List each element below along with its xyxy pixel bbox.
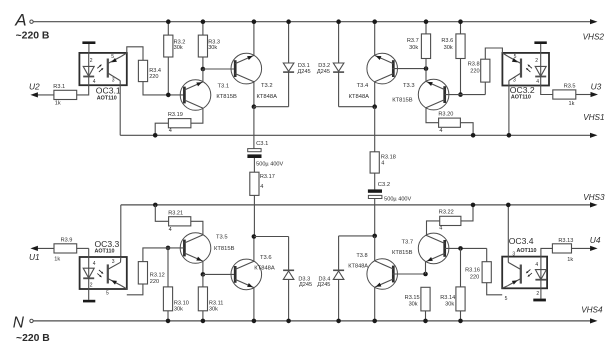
wire node to T3.2 base [203,68,235,70]
svg-text:4: 4 [260,184,263,190]
label T3.7 [402,240,414,246]
wire OC3.2 pin3 to VHS1 [507,86,512,138]
light arrows OC3.1 [97,64,103,71]
svg-text:~220 В: ~220 В [16,30,50,41]
wire C3.1 to R3.17 [253,158,255,172]
svg-text:1k: 1k [55,101,61,107]
svg-text:4: 4 [169,227,172,233]
svg-text:R3.14: R3.14 [440,295,455,301]
svg-text:Т3.8: Т3.8 [356,253,367,259]
svg-text:Т3.2: Т3.2 [261,83,273,89]
label T3.4 [357,83,369,89]
resistor R3.16 [465,262,491,283]
svg-text:R3.16: R3.16 [465,268,480,274]
wire T3.1 emitter to R3.19 [191,108,203,123]
svg-text:4: 4 [439,128,442,134]
wire T3.4 emitter down [372,82,377,109]
resistor R3.8 [468,59,490,82]
svg-text:Т3.3: Т3.3 [403,83,415,89]
svg-text:R3.20: R3.20 [438,112,453,118]
svg-text:5: 5 [505,296,508,302]
wire D3.1 to T3.2 node [254,106,289,108]
resistor R3.19 [168,112,191,134]
wire T3.3 emitter to R3.20 [426,108,439,123]
LED of OC3.4 [535,257,546,289]
svg-text:30k: 30k [174,45,183,51]
wire R3.7 bottom [425,59,427,69]
wire T3.5 base node [166,246,185,251]
wire R3.21 from VHS3 [153,203,169,222]
wire rail A/VHS2 [33,19,597,24]
svg-text:U1: U1 [29,252,40,262]
wire R3.12 to OC3.3 pin5 [127,284,143,295]
label OC3.2 [510,85,535,95]
wire T3.2 collector to rail A [252,19,257,55]
svg-text:220: 220 [470,274,479,280]
svg-text:1k: 1k [567,257,573,263]
pin 3 OC3.2 [513,78,516,84]
svg-text:АОТ110: АОТ110 [97,96,117,102]
wire R3.7 top to rail A [424,19,429,34]
svg-text:2: 2 [536,291,539,297]
wire T3.8 emitter to rail N [372,287,377,323]
wire D3.2 to T3.4 node [339,106,375,108]
pin 2 OC3.4 [536,291,539,297]
svg-text:4: 4 [169,128,172,134]
svg-text:КТ848А: КТ848А [257,94,278,100]
svg-text:R3.21: R3.21 [168,210,183,216]
light arrows OC3.2 [526,64,532,71]
svg-text:220: 220 [150,279,159,285]
resistor R3.4 [138,60,161,81]
resistor R3.22 [439,210,461,232]
svg-text:R3.5: R3.5 [564,83,576,89]
wire LED OC3.4 to R3.13 [541,248,553,256]
wire T3.2 emitter to C3.1 [253,107,255,149]
svg-text:ОС3.3: ОС3.3 [95,239,120,249]
label U3 [591,82,602,92]
wire R3.16 to OC3.4 pin5 [487,283,503,295]
wire R3.2 bottom to T3.1 base [166,57,171,97]
wire LED OC3.3 to R3.9 [77,248,89,257]
wire T3.8 base wire [392,272,427,277]
wire R3.12 to base node [143,248,168,262]
label U1 [29,252,40,262]
wire T3.3 base wire [445,94,486,96]
svg-text:30k: 30k [209,306,218,312]
wire T3.4 node to R3.18 [374,107,376,152]
LED of OC3.1 [83,53,94,85]
pin 3 OC3.3 [112,259,115,265]
wire OC3.1 pin3 to VHS1 [119,85,121,135]
label VHS2 [583,33,605,42]
optocoupler U-OC3.1 box [79,53,126,85]
wire R3.6 bottom to T3.3 base [458,59,463,97]
svg-text:КТ848А: КТ848А [348,264,368,270]
pin 3 OC3.4 [512,251,515,257]
LED of OC3.3 [83,257,94,289]
wire OC3.2 pin5 to R3.8 [485,48,502,59]
label KT815B (T3.5) [214,246,235,252]
svg-text:4: 4 [535,262,538,268]
svg-text:A: A [14,11,26,30]
svg-text:220: 220 [149,74,158,80]
svg-text:C3.1: C3.1 [256,141,268,147]
label OC3.4 [509,236,534,246]
svg-text:30k: 30k [409,45,418,51]
label D3.1 [298,63,311,75]
wire T3.3 collector [425,69,427,82]
svg-text:4: 4 [536,79,539,85]
svg-text:КТ815В: КТ815В [392,250,413,256]
svg-text:2: 2 [90,58,93,64]
svg-text:R3.13: R3.13 [558,238,573,244]
svg-text:КТ848А: КТ848А [254,266,275,272]
label T3.3 [403,83,415,89]
wire T3.6 base wire [203,273,235,275]
svg-text:4: 4 [93,79,96,85]
resistor R3.20 [438,112,460,134]
wire T3.5 emitter down [201,261,206,276]
wire T3.4 collector to rail A [372,19,377,55]
svg-text:500µ 400V: 500µ 400V [384,196,411,202]
svg-text:Д245: Д245 [317,69,330,75]
wire rail VHS1 [120,133,597,138]
svg-text:Д245: Д245 [317,282,330,288]
svg-text:C3.2: C3.2 [378,182,390,188]
light arrows OC3.4 [526,269,532,276]
pin 2 OC3.3 [90,282,93,288]
label T3.8 [356,253,367,259]
wire R3.3 to T3.2 base node [201,57,206,71]
svg-text:3: 3 [512,251,515,257]
label KT815B (T3.3) [392,98,413,104]
svg-text:2: 2 [90,282,93,288]
svg-text:Д245: Д245 [298,69,311,75]
svg-text:~220 В: ~220 В [16,333,50,344]
svg-text:30k: 30k [409,302,418,308]
svg-text:VHS1: VHS1 [583,113,604,122]
wire R3.3 top to rail A [201,19,206,35]
label AOT110 (OC3.3) [95,249,115,255]
pin 5 OC3.3 [106,290,109,296]
wire R3.10 bottom to rail N [166,311,171,323]
pin 4 OC3.2 [536,79,539,85]
svg-text:ОС3.1: ОС3.1 [96,86,121,96]
diode D3.1 [283,19,294,106]
wire OC3.4 pin3 to VHS3 [506,203,511,257]
label T3.1 [218,83,230,89]
svg-text:R3.6: R3.6 [441,38,453,44]
label D3.2 [317,63,330,75]
wire LED OC3.1 to R3.1 [77,85,89,95]
resistor R3.2 [164,35,186,57]
svg-text:3: 3 [112,259,115,265]
mains bar below OC3.3 [83,289,95,302]
label D3.4 [317,276,330,288]
pin 3 OC3.1 [112,78,115,84]
resistor R3.10 [163,287,188,313]
wire R3.11 top [202,274,204,287]
diode D3.4 [333,236,344,323]
mains bar above OC3.2 [534,41,546,53]
svg-text:N: N [13,314,25,331]
wire R3.15 bottom to rail N [423,311,428,323]
mains bar below OC3.4 [533,288,546,301]
svg-text:Т3.1: Т3.1 [218,83,230,89]
svg-text:500µ 400V: 500µ 400V [256,161,283,167]
svg-text:АОТ110: АОТ110 [517,248,537,254]
pin 4 OC3.1 [93,79,96,85]
resistor R3.1 [53,84,76,107]
svg-text:30k: 30k [208,45,217,51]
label KT848A (T3.4) [349,94,370,100]
resistor R3.17 [250,172,275,195]
svg-text:VHS2: VHS2 [583,33,605,42]
svg-text:VHS4: VHS4 [581,306,603,315]
transistor T3.6 [231,259,262,290]
wire C3.2 to VHS3 [374,199,376,205]
svg-text:1k: 1k [54,257,60,263]
resistor R3.9 [54,238,77,263]
wire T3.7 base wire [445,246,487,251]
wire R3.13 to U4 arrow [572,246,598,251]
wire R3.14 bottom to rail N [458,311,463,323]
wire R3.22 to VHS3 [461,203,475,221]
pin 4 OC3.4 [535,262,538,268]
wire R3.10 top [167,248,169,287]
phototransistor of OC3.1 [108,53,127,85]
label KT815B (T3.7) [392,250,413,256]
svg-text:R3.1: R3.1 [53,84,65,90]
pin 5 OC3.1 [111,54,114,60]
svg-text:КТ815В: КТ815В [216,94,237,100]
wire T3.7 collector to R3.22 [427,221,440,235]
capacitor C3.2 [368,182,412,202]
label T3.6 [260,255,272,261]
wire R3.14 top [460,248,462,287]
resistor R3.21 [168,210,191,233]
svg-text:КТ815В: КТ815В [214,246,235,252]
pin 2 OC3.1 [90,58,93,64]
svg-text:Т3.6: Т3.6 [260,255,272,261]
label KT815B (T3.1) [216,94,237,100]
wire R3.6 top to rail A [458,19,463,34]
svg-text:АОТ110: АОТ110 [95,249,115,255]
label VHS1 [583,113,604,122]
label U2 [29,82,40,92]
transistor T3.5 [180,233,211,264]
wire T3.1 collector [202,69,204,82]
svg-text:30k: 30k [174,306,183,312]
label AOT110 (OC3.2) [511,94,531,100]
resistor R3.13 [552,238,573,263]
wire T3.6 collector up [252,234,257,261]
svg-text:R3.15: R3.15 [405,295,420,301]
resistor R3.12 [138,262,164,285]
node A terminal [14,11,33,30]
phototransistor of OC3.2 [502,53,521,86]
label OC3.3 [95,239,120,249]
svg-text:R3.22: R3.22 [439,210,454,216]
svg-text:R3.4: R3.4 [149,68,161,74]
node N terminal [13,314,33,331]
wire T3.4 base wire [392,66,428,71]
label KT848A (T3.6) [254,266,275,272]
label U4 [590,235,601,245]
resistor R3.11 [198,287,223,313]
svg-text:U3: U3 [591,82,602,92]
LED of OC3.2 [535,53,546,86]
phototransistor of OC3.3 [108,257,127,289]
resistor R3.14 [440,287,465,311]
svg-text:3: 3 [513,78,516,84]
wire R3.21 to T3.5 collector [191,221,203,234]
svg-text:R3.19: R3.19 [168,112,183,118]
svg-text:4: 4 [439,226,442,232]
pin 4 OC3.3 [93,261,96,267]
label OC3.1 [96,86,121,96]
pin 5 OC3.2 [514,54,517,60]
svg-text:2: 2 [535,58,538,64]
wire D3.4 to T3.8 node [339,234,377,239]
wire T3.6 emitter to rail N [252,288,257,324]
wire R3.5 to U3 arrow [576,92,598,97]
wire LED OC3.2 to R3.5 [541,86,553,95]
wire T3.2 emitter down [252,82,257,109]
svg-text:КТ815В: КТ815В [392,98,413,104]
svg-text:Т3.4: Т3.4 [357,83,369,89]
svg-text:VHS3: VHS3 [583,193,605,202]
pin 5 OC3.4 [505,296,508,302]
svg-text:5: 5 [514,54,517,60]
label ~220 V (top) [16,30,50,41]
svg-text:30k: 30k [444,45,453,51]
svg-text:R3.9: R3.9 [61,238,73,244]
mains bar above OC3.1 [82,41,95,53]
resistor R3.5 [553,83,576,107]
svg-text:ОС3.2: ОС3.2 [510,85,535,95]
label T3.2 [261,83,273,89]
wire R3.8 to T3.3 base wire [484,82,486,95]
resistor R3.18 [370,152,396,173]
label KT848A (T3.8) [348,264,368,270]
wire R3.2 top to rail A [166,19,171,35]
svg-text:220: 220 [470,69,479,75]
label D3.3 [298,276,312,288]
svg-text:4: 4 [381,161,384,167]
svg-text:R3.7: R3.7 [407,38,419,44]
svg-text:1k: 1k [569,101,575,107]
label VHS3 [583,193,605,202]
resistor R3.15 [405,287,430,311]
wire R3.1 to U2 arrow [30,92,54,97]
wire R3.18 to C3.2 [374,173,376,189]
wire R3.17 to VHS3 [253,195,255,205]
svg-text:ОС3.4: ОС3.4 [509,236,534,246]
diode D3.2 [333,19,344,106]
wire R3.19 to VHS1 [153,123,169,137]
svg-text:U2: U2 [29,82,40,92]
wire VHS3 to T3.8 collector [374,205,376,236]
wire R3.11 bottom to rail N [201,311,206,323]
diode D3.3 [283,237,294,324]
wire T3.6 node to D3.3 [254,236,289,238]
light arrows OC3.3 [97,270,103,277]
wire rail N/VHS4 [33,318,597,323]
svg-text:КТ848А: КТ848А [349,94,370,100]
resistor R3.3 [198,35,220,57]
optocoupler U-OC3.4 box [502,257,547,289]
svg-text:R3.18: R3.18 [381,155,396,161]
wire T3.7 emitter down [425,262,427,274]
label T3.5 [216,234,228,240]
transistor T3.3 [418,79,449,110]
wire R3.4 to T3.1 base [143,82,184,95]
svg-text:4: 4 [93,261,96,267]
svg-text:R3.12: R3.12 [150,272,165,278]
capacitor C3.1 [247,141,283,167]
wire R3.20 to VHS1 [460,123,475,138]
svg-text:R3.8: R3.8 [468,62,480,68]
svg-text:5: 5 [106,290,109,296]
label KT848A (T3.2) [257,94,278,100]
svg-text:5: 5 [111,54,114,60]
transistor T3.4 [367,53,398,84]
wire R3.16 top to base wire [486,248,488,261]
wire OC3.1 pin5 to R3.4 [127,47,143,61]
optocoupler U-OC3.2 box [502,53,549,86]
pin 2 OC3.2 [535,58,538,64]
svg-text:3: 3 [112,78,115,84]
label VHS4 [581,306,603,315]
svg-text:30k: 30k [445,302,454,308]
transistor T3.8 [367,259,398,290]
wire VHS3 left to OC3.3 pin3 [120,205,122,257]
label AOT110 (OC3.1) [97,96,117,102]
svg-text:R3.17: R3.17 [260,174,275,180]
transistor T3.7 [418,233,449,264]
wire R3.9 to U1 arrow [30,246,54,251]
resistor R3.7 [407,34,431,59]
wire VHS3 to T3.6 collector [253,205,255,237]
svg-text:Т3.5: Т3.5 [216,234,228,240]
label AOT110 (OC3.4) [517,248,537,254]
svg-text:Т3.7: Т3.7 [402,240,414,246]
wire rail VHS3 [121,202,598,207]
resistor R3.6 [441,34,465,59]
transistor T3.2 [231,53,262,84]
svg-text:U4: U4 [590,235,601,245]
svg-text:АОТ110: АОТ110 [511,94,531,100]
phototransistor of OC3.4 [502,257,521,289]
wire T3.8 collector up [374,236,376,261]
optocoupler U-OC3.3 box [80,257,127,289]
svg-text:Д245: Д245 [299,282,312,288]
label ~220 V (bottom) [16,333,50,344]
transistor T3.1 [180,80,211,111]
